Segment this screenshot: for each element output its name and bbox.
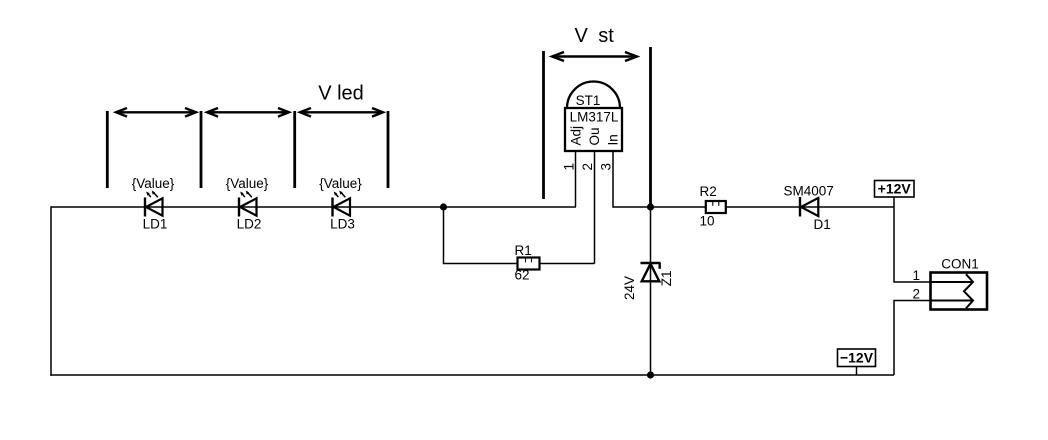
svg-text:Adj: Adj: [568, 126, 583, 146]
svg-text:2: 2: [580, 163, 595, 171]
wire ST1 pin3: [613, 151, 651, 207]
svg-text:2: 2: [912, 287, 920, 302]
svg-text:62: 62: [515, 268, 530, 283]
svg-text:SM4007: SM4007: [784, 184, 834, 199]
power +12V: [875, 181, 915, 198]
wire ST1 pin1: [575, 151, 577, 207]
dimension arrow 1: [116, 108, 196, 117]
wire left frame vertical: [50, 206, 52, 375]
resistor R1: [515, 243, 540, 283]
svg-text:Ou: Ou: [587, 127, 602, 145]
svg-text:V: V: [575, 25, 589, 47]
wire R1 horizontal y=263.5: [443, 263, 595, 265]
dimension tick 4: [387, 111, 390, 188]
dimension tick 2: [200, 111, 203, 188]
wire zener branch from junction down: [650, 207, 652, 375]
svg-text:LD2: LD2: [237, 217, 262, 232]
svg-text:Z1: Z1: [659, 271, 674, 287]
svg-text:10: 10: [700, 214, 715, 229]
svg-text:ST1: ST1: [576, 93, 601, 108]
LED LD1: [132, 176, 175, 232]
svg-text:{Value}: {Value}: [132, 176, 175, 191]
svg-text:+12V: +12V: [878, 181, 912, 197]
svg-text:R1: R1: [515, 243, 532, 258]
wire junction down to R1 level: [443, 207, 445, 264]
resistor R2: [700, 184, 726, 229]
svg-text:LD1: LD1: [143, 217, 168, 232]
svg-text:V led: V led: [318, 83, 364, 105]
LED LD2: [226, 176, 269, 232]
diode D1 SM4007: [784, 184, 834, 233]
V st dimension tick right: [649, 47, 652, 207]
V st dimension tick left: [542, 51, 545, 199]
dimension arrow 2: [207, 108, 289, 117]
svg-text:In: In: [605, 134, 620, 145]
wire ST1 pin2 vertical: [594, 151, 596, 264]
zener diode Z1: [622, 263, 674, 300]
svg-text:1: 1: [562, 163, 577, 171]
svg-text:R2: R2: [700, 184, 717, 199]
wire bottom rail y=375: [50, 374, 894, 376]
connector CON1: [931, 257, 988, 310]
wire +12V down to CON1 pin1: [894, 198, 931, 283]
svg-text:LM317L: LM317L: [570, 110, 619, 125]
svg-text:st: st: [598, 25, 614, 47]
svg-text:1: 1: [912, 268, 920, 283]
node junction at (650.5,375): [647, 371, 654, 378]
svg-text:CON1: CON1: [941, 257, 979, 272]
op-amp/regulator ST1 LM317L package: [565, 82, 622, 151]
wire CON1 pin2 to bottom rail: [894, 301, 931, 376]
node junction at (443.5,207): [440, 203, 447, 210]
svg-text:D1: D1: [814, 217, 831, 232]
power -12V: [838, 349, 876, 375]
dimension arrow 3: [300, 108, 383, 117]
svg-text:3: 3: [599, 163, 614, 171]
V st dimension arrow: [552, 52, 637, 61]
node junction at (650.5,207): [647, 203, 654, 210]
svg-text:24V: 24V: [622, 276, 637, 300]
dimension tick 1: [106, 111, 109, 188]
svg-text:−12V: −12V: [840, 350, 874, 366]
wire main top rail y=207 from left frame to ST1 pin1: [51, 206, 576, 208]
svg-text:{Value}: {Value}: [226, 176, 269, 191]
svg-text:LD3: LD3: [330, 217, 355, 232]
LED LD3: [319, 176, 362, 232]
wire right rail y=207 from junction to +12V corner: [651, 206, 895, 208]
svg-text:{Value}: {Value}: [319, 176, 362, 191]
dimension tick 3: [293, 111, 296, 188]
